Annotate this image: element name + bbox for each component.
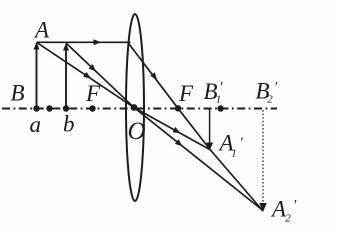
image arrow B1' to A1': [206, 109, 213, 151]
right focus F dot: [175, 105, 181, 111]
label B1': [204, 79, 224, 106]
image line B2' to A2' (dotted): [259, 110, 267, 212]
ray: b through centre O: [66, 43, 134, 108]
lens L: [126, 14, 144, 201]
svg-text:O: O: [128, 118, 146, 145]
ray: parallel from A to lens: [37, 39, 131, 45]
label B2': [256, 79, 279, 106]
label A2': [270, 197, 297, 225]
label A1': [218, 131, 244, 160]
point a dot: [33, 105, 39, 111]
point B1' dot: [217, 105, 223, 111]
svg-text:2: 2: [285, 213, 291, 225]
svg-text:B: B: [11, 81, 25, 106]
svg-text:A: A: [33, 18, 50, 43]
ray: O to A1': [134, 108, 210, 150]
object arrow at b: [63, 43, 69, 109]
svg-text:b: b: [63, 112, 75, 137]
unlabeled axis dot between a and b: [46, 105, 52, 111]
svg-text:F: F: [85, 81, 101, 106]
ray: O to A2': [134, 108, 263, 211]
object arrow at a: [34, 42, 40, 109]
svg-text:2: 2: [267, 94, 273, 106]
point b dot: [63, 105, 69, 111]
optical centre O dot: [131, 104, 138, 111]
svg-text:1: 1: [231, 148, 237, 160]
ray: A through centre O: [37, 42, 135, 107]
svg-text:a: a: [30, 112, 42, 137]
ray: refracted through focus F to A2': [128, 42, 264, 211]
optical axis: [2, 108, 277, 110]
svg-text:F: F: [178, 81, 194, 106]
left focus F dot: [89, 105, 95, 111]
